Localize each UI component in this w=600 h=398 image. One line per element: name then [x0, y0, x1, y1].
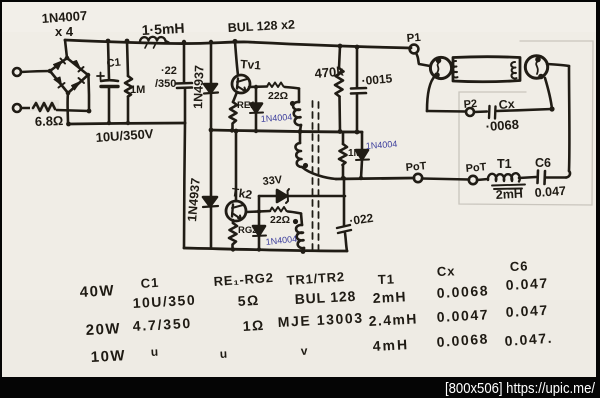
- svg-text:C1: C1: [106, 57, 121, 70]
- label 1M second: [348, 148, 362, 159]
- svg-text:4mH: 4mH: [372, 336, 409, 354]
- lamp tube body: [453, 57, 520, 82]
- junction dot winding at mid rail: [298, 129, 303, 134]
- svg-text:x 4: x 4: [55, 24, 74, 39]
- svg-text:0.047: 0.047: [505, 275, 549, 293]
- wire: from 6.8 ohm to bridge right corner: [57, 77, 91, 126]
- svg-text:Tk2: Tk2: [231, 185, 254, 202]
- svg-text:40W: 40W: [79, 282, 115, 301]
- junction dot P2 line right end: [549, 106, 554, 111]
- resistor 1M (input bleeder): [125, 41, 132, 123]
- resistor RG2: [229, 223, 237, 250]
- wire: P2 line: [427, 109, 552, 112]
- label .0068: [485, 117, 519, 134]
- junction dot Tv1 collector at top rail: [232, 39, 237, 44]
- wire: corner hook up to lamp right vertical: [566, 171, 570, 178]
- label RG2: [238, 225, 258, 236]
- label P1: [406, 32, 422, 45]
- zener diode 33V: [259, 189, 345, 203]
- svg-text:1·5mH: 1·5mH: [141, 20, 185, 38]
- capacitor C6 0.047: [538, 171, 567, 185]
- svg-text:Tv1: Tv1: [240, 57, 262, 72]
- wire: bottom rail: [184, 248, 347, 251]
- label Tk2: [231, 185, 254, 202]
- label 1N4937 lower (rotated): [185, 177, 203, 222]
- transformer core (dashed): [313, 101, 319, 250]
- capacitor .0015: [351, 47, 366, 132]
- svg-text:1M: 1M: [130, 84, 145, 96]
- label Tv1: [240, 57, 262, 72]
- phase dot winding 2: [303, 163, 308, 168]
- svg-text:·22: ·22: [161, 65, 177, 77]
- junction dot base diode tap: [254, 85, 258, 89]
- terminal: AC input upper: [13, 68, 21, 76]
- label 1N4004 first (blue): [260, 112, 292, 124]
- bridge rectifier 1N4007 x4: [48, 56, 91, 96]
- label PoT right: [465, 161, 487, 175]
- wire: top rail: [65, 40, 411, 48]
- resistor 22 ohm upper: [267, 83, 285, 88]
- terminal PoT right: [469, 176, 477, 184]
- svg-text:0.047.: 0.047.: [504, 330, 554, 349]
- wire: bridge top corner to top rail: [65, 40, 67, 58]
- junction dot 1N4937 top rail: [209, 40, 213, 44]
- diode 1N4004 first: [250, 87, 263, 130]
- wire: P1 to lamp left cathode: [416, 53, 430, 66]
- transformer winding 1: [293, 89, 301, 132]
- terminal PoT left: [414, 174, 422, 182]
- lamp right end cap: [525, 56, 547, 79]
- wire: Tv1 base line with 22 ohm to winding1 top: [249, 87, 299, 89]
- terminal: AC input lower: [13, 104, 21, 112]
- label C6: [535, 156, 551, 170]
- lamp filament left: [452, 61, 457, 77]
- junction dot 1M2 bottom: [341, 176, 345, 180]
- transformer winding 2: [295, 132, 336, 179]
- junction dot Tk2 at mid rail: [234, 129, 239, 134]
- svg-text:6.8Ω: 6.8Ω: [35, 113, 64, 129]
- wire: between terminals: [422, 179, 469, 180]
- diode 1N4004 third: [253, 226, 266, 249]
- label 0.047: [534, 184, 566, 200]
- label 1M: [130, 84, 145, 96]
- label .22: [161, 65, 177, 77]
- junction dot .0015 top: [355, 45, 360, 50]
- wire: output rail to lamp terminals: [336, 178, 414, 179]
- svg-text:Cx: Cx: [437, 263, 456, 279]
- svg-text:C6: C6: [535, 156, 551, 170]
- phase dot winding 3: [293, 219, 298, 224]
- terminal P2: [466, 108, 474, 116]
- label 22 ohm lower: [270, 214, 290, 226]
- svg-text:1Ω: 1Ω: [242, 317, 265, 334]
- svg-text:·0015: ·0015: [361, 71, 393, 88]
- junction dot 470k top: [338, 44, 343, 49]
- svg-text:0.047: 0.047: [534, 184, 566, 200]
- terminal P1: [410, 45, 419, 54]
- label 33V: [262, 174, 283, 188]
- svg-text:0.047: 0.047: [505, 302, 549, 320]
- junction dot diode1 at mid rail: [254, 129, 258, 133]
- svg-text:T1: T1: [378, 271, 396, 287]
- label BUL 128 x2: [227, 17, 295, 34]
- wire: terminal to T1: [477, 179, 488, 180]
- label C1: [106, 57, 121, 70]
- label 470k: [314, 63, 345, 81]
- label 1N4004 third (blue): [265, 234, 297, 247]
- svg-text:4.7/350: 4.7/350: [132, 315, 192, 334]
- diode 1N4937 lower: [203, 130, 218, 248]
- svg-text:v: v: [300, 344, 308, 358]
- label 1N4004 second (blue): [365, 139, 397, 151]
- transistor Tk2: [226, 201, 246, 221]
- junction dot 1N4937 mid rail: [209, 128, 214, 133]
- junction dot C1 bottom: [107, 121, 111, 125]
- svg-text:22Ω: 22Ω: [270, 214, 290, 226]
- lamp left end cap: [430, 57, 451, 78]
- svg-text:2mH: 2mH: [495, 187, 523, 202]
- junction dot C1 top: [106, 39, 111, 44]
- resistor 22 ohm lower: [270, 207, 288, 212]
- svg-text:u: u: [150, 345, 158, 359]
- resistor RE1: [230, 102, 238, 130]
- junction dot .0015 bottom: [355, 130, 360, 135]
- svg-text:20W: 20W: [85, 320, 121, 339]
- junction dot diode2 bottom: [359, 176, 363, 180]
- capacitor .022: [337, 178, 351, 251]
- diode 1N4004 second: [356, 132, 369, 178]
- wire: zener branch vertical: [258, 196, 261, 226]
- lamp filament right: [511, 62, 516, 78]
- label RE1: [237, 100, 256, 111]
- svg-text:0.0047: 0.0047: [436, 306, 489, 325]
- wire: DC- left rail: [68, 123, 185, 124]
- svg-text:Cx: Cx: [498, 97, 515, 112]
- watermark bar: [445, 380, 596, 397]
- svg-text:10U/350: 10U/350: [132, 292, 196, 311]
- wire: AC input top lead: [21, 71, 50, 72]
- faint paper scrap outline: [459, 41, 593, 205]
- svg-text:P2: P2: [463, 98, 477, 111]
- wire: lamp right to right vertical: [547, 64, 569, 66]
- diode 1N4937 upper: [204, 42, 218, 130]
- svg-text:10W: 10W: [90, 347, 126, 366]
- wire: bridge bottom corner down to DC- rail: [66, 93, 69, 124]
- wire: Tv1 emitter to RE1: [233, 92, 237, 102]
- wire: top rail to Tv1: [235, 42, 238, 76]
- svg-text:PoT: PoT: [405, 160, 427, 174]
- junction dot winding 3 at bottom rail: [301, 249, 306, 254]
- label 1.5mH: [141, 20, 185, 38]
- wire: Tk2 base line with 22 ohm to winding3 top: [246, 211, 301, 214]
- svg-text:C6: C6: [510, 258, 529, 274]
- wire: DC- rail down to bottom rail: [184, 123, 185, 248]
- svg-text:1N4937: 1N4937: [191, 65, 207, 109]
- resistor 470k: [335, 46, 344, 131]
- label 10U/350V: [95, 126, 154, 145]
- svg-text:33V: 33V: [262, 174, 283, 188]
- label .0015: [361, 71, 393, 88]
- label x 4: [55, 24, 74, 39]
- svg-text:P1: P1: [406, 32, 422, 45]
- resistor 1M second: [339, 132, 347, 178]
- label /350: [155, 78, 176, 90]
- svg-text:0.0068: 0.0068: [436, 282, 489, 301]
- svg-text:BUL 128: BUL 128: [294, 288, 356, 307]
- junction dot .22 top: [182, 40, 186, 44]
- wire: T1 to C6: [519, 177, 536, 178]
- junction dot 470k bottom: [338, 129, 343, 134]
- junction dot 1M top: [125, 39, 130, 44]
- label .022: [348, 211, 374, 228]
- phase dot winding 1: [290, 101, 295, 106]
- label P2: [463, 98, 477, 111]
- label 1N4007: [41, 8, 87, 26]
- svg-text:PoT: PoT: [465, 161, 487, 175]
- label 22 ohm upper: [268, 90, 288, 102]
- svg-text:[800x506] https://upic.me/: [800x506] https://upic.me/: [445, 380, 596, 397]
- junction dot RE1 at mid rail: [230, 128, 234, 132]
- svg-text:T1: T1: [497, 157, 512, 171]
- wire: Tk2 emitter to RG2: [232, 220, 235, 223]
- junction dot zener tap on base line: [257, 209, 261, 213]
- junction dot .022 top: [342, 176, 346, 180]
- label T1: [497, 157, 512, 171]
- svg-text:·0068: ·0068: [485, 117, 519, 134]
- resistor 6.8 ohm: [30, 100, 59, 111]
- label 1N4937 upper (rotated): [191, 65, 207, 109]
- transistor Tv1: [232, 75, 250, 93]
- svg-text:/350: /350: [155, 78, 176, 90]
- svg-text:C1: C1: [140, 275, 160, 291]
- transformer winding 3: [296, 214, 304, 253]
- inductor T1 2mH: [488, 173, 525, 189]
- svg-text:2.4mH: 2.4mH: [368, 310, 418, 329]
- junction dot diode3 at bottom rail: [257, 247, 261, 251]
- label PoT left: [405, 160, 427, 174]
- wire: right vertical down to C6 line: [568, 66, 571, 171]
- svg-text:2mH: 2mH: [372, 288, 407, 306]
- svg-text:22Ω: 22Ω: [268, 90, 288, 102]
- wire: mid rail down to Tk2: [235, 131, 238, 201]
- capacitor C1 10U/350V electrolytic: [97, 41, 118, 123]
- wire: lamp left bottom down: [427, 76, 435, 111]
- label Cx: [498, 97, 515, 112]
- svg-text:5Ω: 5Ω: [237, 292, 260, 309]
- junction dot RG2 at bottom rail: [231, 247, 235, 251]
- svg-text:470k: 470k: [314, 63, 345, 81]
- svg-text:u: u: [219, 347, 227, 361]
- wire: mid rail: [211, 130, 362, 132]
- wire: P2 line up to lamp right bottom: [545, 78, 552, 109]
- junction dot 1M bottom: [126, 121, 130, 125]
- table text: [79, 258, 553, 366]
- capacitor Cx: [489, 106, 496, 119]
- capacitor .22/350: [176, 42, 192, 123]
- inductor 1.5mH on top rail: [140, 37, 169, 48]
- label 6.8 ohm: [35, 113, 64, 129]
- label 2mH: [495, 187, 523, 202]
- wire: AC input bottom lead to resistor: [21, 107, 33, 110]
